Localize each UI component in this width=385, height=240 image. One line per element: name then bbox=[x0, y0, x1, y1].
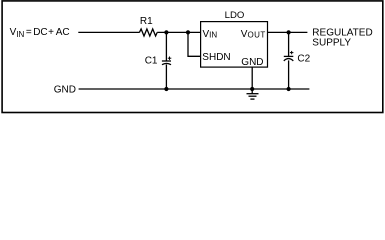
regulator IC U1 LDO bbox=[201, 10, 268, 67]
svg-text:SUPPLY: SUPPLY bbox=[312, 37, 351, 48]
wire C1 branch lower bbox=[165, 64, 167, 89]
resistor R1 bbox=[139, 16, 157, 36]
wire SHDN branch bbox=[188, 32, 200, 56]
svg-text:VIN=DC+AC: VIN=DC+AC bbox=[10, 27, 70, 39]
wire C2 branch lower bbox=[288, 60, 290, 89]
svg-text:LDO: LDO bbox=[225, 10, 245, 21]
junction node C2/output bbox=[287, 30, 291, 34]
wire VOUT to output bbox=[268, 31, 308, 33]
svg-text:C1: C1 bbox=[145, 55, 158, 66]
wire C2 branch upper bbox=[288, 32, 290, 56]
wire input to R1 bbox=[78, 31, 139, 33]
svg-text:R1: R1 bbox=[140, 16, 153, 27]
wire LDO GND pin to ground bus bbox=[251, 67, 253, 89]
svg-text:C2: C2 bbox=[297, 53, 310, 64]
ground symbol bbox=[247, 89, 259, 99]
svg-text:SHDN: SHDN bbox=[202, 52, 230, 63]
junction node C1/ground bbox=[164, 87, 168, 91]
svg-text:GND: GND bbox=[241, 57, 263, 68]
node REGULATED SUPPLY label bbox=[312, 28, 372, 49]
svg-text:VOUT: VOUT bbox=[241, 29, 266, 40]
junction node C2/ground bbox=[287, 87, 291, 91]
capacitor C2 bbox=[284, 51, 311, 64]
junction node SHDN branch bbox=[186, 30, 190, 34]
svg-text:GND: GND bbox=[54, 84, 76, 95]
capacitor C1 bbox=[145, 55, 172, 66]
wire R1 to LDO VIN pin bbox=[157, 31, 200, 33]
svg-text:VIN: VIN bbox=[203, 29, 218, 40]
wire C1 branch upper bbox=[165, 32, 167, 60]
wire ground bus bbox=[79, 88, 310, 90]
junction node C1/top bbox=[164, 30, 168, 34]
junction node GND pin/ground bbox=[250, 87, 254, 91]
